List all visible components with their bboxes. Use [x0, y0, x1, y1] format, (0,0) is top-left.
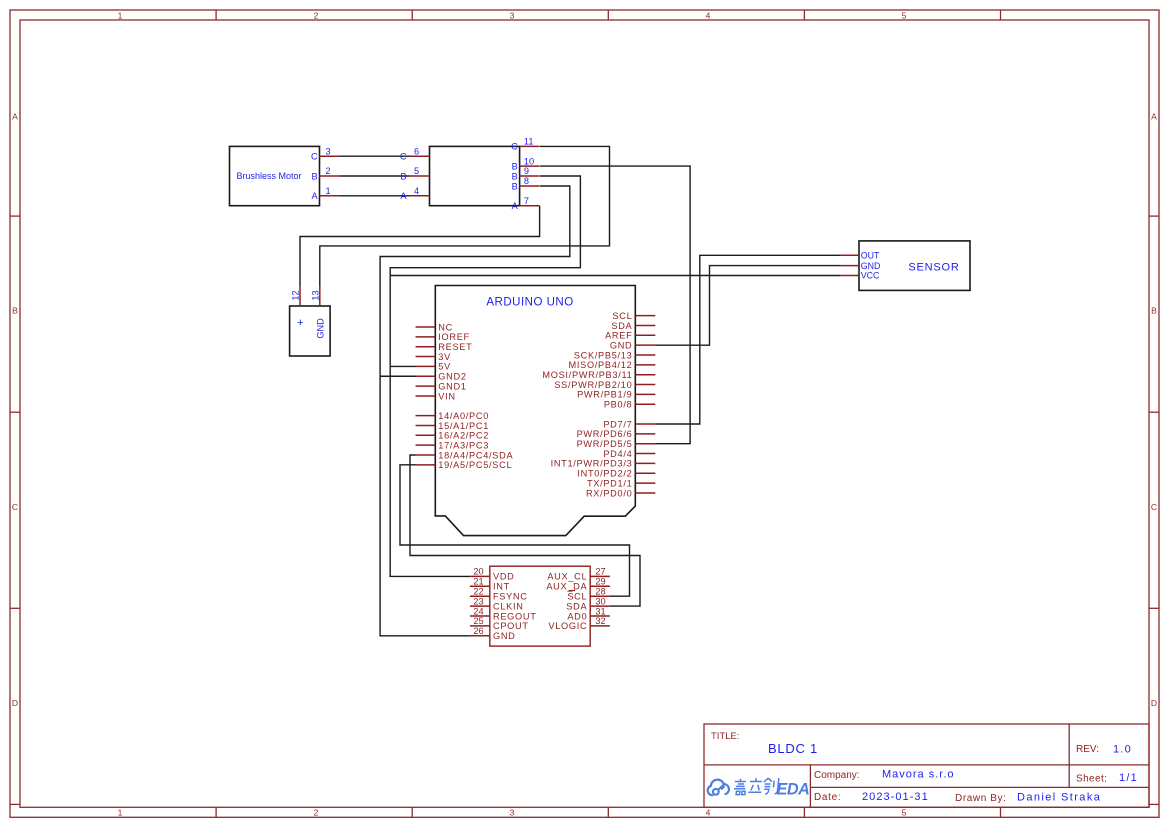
- arduino pin MISO/PB4/12: [569, 360, 656, 370]
- connector pin 5 (B) left: [400, 166, 429, 181]
- svg-text:INT: INT: [493, 582, 510, 592]
- arduino pin GND: [610, 340, 655, 350]
- arduino pin GND2: [416, 372, 467, 382]
- svg-text:C: C: [511, 142, 518, 152]
- svg-text:11: 11: [524, 137, 534, 147]
- arduino pin PWR/PD5/5: [577, 439, 656, 449]
- svg-text:5: 5: [414, 166, 419, 176]
- svg-text:18/A4/PC4/SDA: 18/A4/PC4/SDA: [438, 450, 513, 460]
- svg-text:D: D: [12, 698, 18, 708]
- arduino pin GND1: [416, 381, 467, 391]
- svg-text:14/A0/PC0: 14/A0/PC0: [438, 411, 489, 421]
- svg-text:A: A: [400, 191, 407, 201]
- svg-text:RESET: RESET: [438, 342, 472, 352]
- arduino pin 3V: [416, 352, 452, 362]
- svg-text:C: C: [311, 152, 318, 162]
- wire: arduino 19/A5/PC5/SCL to MPU pin 28 SCL: [400, 465, 630, 596]
- svg-text:27: 27: [595, 567, 605, 577]
- svg-text:GND: GND: [493, 631, 516, 641]
- svg-text:5V: 5V: [438, 362, 451, 372]
- MPU pin 24 (REGOUT): [470, 606, 537, 621]
- arduino pin 19/A5/PC5/SCL: [416, 460, 513, 470]
- svg-text:IOREF: IOREF: [438, 332, 470, 342]
- svg-text:25: 25: [473, 616, 483, 626]
- wire: connector pin 9 (B) to arduino 5V / sensor VCC / MPU VDD net: [390, 176, 580, 576]
- svg-text:Daniel Straka: Daniel Straka: [1017, 792, 1101, 804]
- wire: sensor GND to arduino GND: [655, 266, 839, 346]
- svg-text:SDA: SDA: [611, 321, 632, 331]
- svg-text:A: A: [311, 191, 318, 201]
- svg-text:Sheet:: Sheet:: [1076, 774, 1107, 785]
- svg-text:CLKIN: CLKIN: [493, 601, 524, 611]
- battery pin 13 (GND): [311, 287, 321, 306]
- arduino pin AREF: [605, 331, 655, 341]
- svg-text:29: 29: [595, 577, 605, 587]
- motor pin 3 (C): [311, 146, 340, 161]
- wire: 5V branch of VCC net: [390, 365, 415, 367]
- svg-text:26: 26: [473, 626, 483, 636]
- svg-text:GND: GND: [861, 261, 881, 271]
- svg-text:PWR/PD5/5: PWR/PD5/5: [577, 439, 633, 449]
- svg-text:Date:: Date:: [814, 792, 841, 803]
- svg-text:4: 4: [414, 186, 419, 196]
- svg-text:1.0: 1.0: [1113, 744, 1132, 756]
- sensor pin OUT: [840, 251, 880, 261]
- svg-text:PWR/PB1/9: PWR/PB1/9: [577, 390, 632, 400]
- EasyEDA (JLC) logo: [708, 778, 810, 798]
- arduino pin SS/PWR/PB2/10: [554, 380, 655, 390]
- svg-text:AUX_CL: AUX_CL: [547, 572, 587, 582]
- arduino pin 17/A3/PC3: [416, 440, 490, 450]
- arduino pin SCK/PB5/13: [574, 350, 655, 360]
- svg-text:MOSI/PWR/PB3/11: MOSI/PWR/PB3/11: [542, 370, 632, 380]
- motor pin 1 (A): [311, 186, 339, 201]
- svg-text:OUT: OUT: [861, 251, 880, 261]
- wire: connector pin 7 (A) to battery pin 12: [300, 206, 540, 287]
- svg-text:C: C: [400, 152, 407, 162]
- arduino pin PB0/8: [604, 400, 655, 410]
- connector pin 7 (A) right: [512, 196, 540, 211]
- svg-text:VDD: VDD: [493, 572, 515, 582]
- svg-text:24: 24: [473, 606, 483, 616]
- svg-text:21: 21: [473, 577, 483, 587]
- svg-text:17/A3/PC3: 17/A3/PC3: [438, 440, 489, 450]
- wire: connector pin 8 (B) to arduino GND2 / MPU GND net: [380, 186, 570, 636]
- svg-text:GND: GND: [610, 340, 633, 350]
- svg-text:7: 7: [524, 196, 529, 206]
- svg-text:20: 20: [473, 567, 483, 577]
- svg-text:22: 22: [473, 587, 483, 597]
- svg-text:REV:: REV:: [1076, 744, 1099, 755]
- connector pin 8 (B) right: [512, 176, 540, 191]
- MPU pin 30 (SDA): [566, 596, 610, 611]
- MPU pin 31 (AD0): [567, 606, 610, 621]
- svg-text:B: B: [311, 171, 317, 181]
- wire: connector pin 10 (B) to arduino PWR/PD5/5: [540, 166, 690, 444]
- svg-text:1: 1: [118, 10, 123, 20]
- svg-text:TITLE:: TITLE:: [711, 731, 740, 741]
- MPU pin 32 (VLOGIC): [548, 616, 610, 631]
- svg-text:SCL: SCL: [612, 311, 632, 321]
- arduino pin 14/A0/PC0: [416, 411, 490, 421]
- svg-text:23: 23: [473, 596, 483, 606]
- svg-text:Drawn By:: Drawn By:: [955, 793, 1007, 804]
- arduino pin MOSI/PWR/PB3/11: [542, 370, 655, 380]
- svg-text:SCL: SCL: [567, 592, 587, 602]
- svg-text:PD7/7: PD7/7: [603, 419, 632, 429]
- wire: sensor VCC to VCC net vertical: [390, 275, 839, 277]
- svg-text:2: 2: [314, 10, 319, 20]
- arduino pin 15/A1/PC1: [416, 421, 490, 431]
- svg-text:Mavora s.r.o: Mavora s.r.o: [882, 769, 955, 781]
- component U1 ARDUINO UNO: [435, 286, 635, 536]
- arduino pin IOREF: [416, 332, 470, 342]
- wire: motor pin 2 (B) to connector pin 5: [340, 175, 410, 177]
- svg-text:TX/PD1/1: TX/PD1/1: [587, 478, 632, 488]
- svg-text:D: D: [1151, 698, 1157, 708]
- arduino pin RX/PD0/0: [586, 488, 655, 498]
- wire: GND2 branch of ground net: [380, 375, 415, 377]
- svg-text:C: C: [12, 502, 18, 512]
- sensor pin GND: [840, 261, 881, 271]
- svg-text:5: 5: [902, 808, 907, 818]
- svg-text:SS/PWR/PB2/10: SS/PWR/PB2/10: [554, 380, 632, 390]
- svg-text:1/1: 1/1: [1119, 772, 1138, 784]
- wire: sensor OUT to arduino PD7/7: [655, 255, 839, 424]
- svg-text:13: 13: [311, 290, 321, 300]
- svg-text:B: B: [512, 181, 518, 191]
- arduino pin VIN: [416, 391, 456, 401]
- svg-text:3: 3: [510, 808, 515, 818]
- svg-text:SDA: SDA: [566, 601, 587, 611]
- svg-text:+: +: [297, 317, 303, 329]
- arduino pin PWR/PB1/9: [577, 390, 655, 400]
- svg-text:REGOUT: REGOUT: [493, 611, 537, 621]
- connector pin 11 (C) right: [511, 137, 539, 152]
- svg-text:PB0/8: PB0/8: [604, 400, 633, 410]
- connector pin 9 (B) right: [512, 166, 540, 181]
- svg-text:VCC: VCC: [861, 271, 880, 281]
- svg-text:4: 4: [706, 10, 711, 20]
- svg-text:15/A1/PC1: 15/A1/PC1: [438, 421, 489, 431]
- svg-text:ARDUINO UNO: ARDUINO UNO: [486, 297, 573, 309]
- svg-text:AREF: AREF: [605, 331, 632, 341]
- svg-text:1: 1: [326, 186, 331, 196]
- arduino pin 16/A2/PC2: [416, 431, 490, 441]
- svg-text:AD0: AD0: [567, 611, 587, 621]
- motor pin 2 (B): [311, 166, 339, 181]
- connector pin 10 (B) right: [512, 156, 540, 171]
- component M1 Brushless Motor: [230, 146, 320, 205]
- title block: [704, 724, 1149, 807]
- svg-text:A: A: [512, 201, 519, 211]
- svg-text:5: 5: [902, 10, 907, 20]
- svg-text:AUX_DA: AUX_DA: [546, 582, 587, 592]
- arduino pin INT1/PWR/PD3/3: [551, 459, 656, 469]
- connector pin 4 (A) left: [400, 186, 429, 201]
- svg-text:19/A5/PC5/SCL: 19/A5/PC5/SCL: [438, 460, 512, 470]
- MPU pin 23 (CLKIN): [470, 596, 524, 611]
- svg-text:6: 6: [414, 146, 419, 156]
- svg-text:VLOGIC: VLOGIC: [548, 621, 587, 631]
- battery connector (+ / GND): [290, 306, 331, 356]
- arduino pin RESET: [416, 342, 473, 352]
- component U3 MPU-60x0 IMU: [490, 566, 590, 646]
- wire: motor pin 1 (A) to connector pin 4: [340, 195, 410, 197]
- MPU pin 27 (AUX_CL): [547, 567, 610, 582]
- svg-text:31: 31: [595, 606, 605, 616]
- svg-text:Company:: Company:: [814, 770, 860, 781]
- svg-text:VIN: VIN: [438, 391, 455, 401]
- arduino pin INT0/PD2/2: [577, 469, 655, 479]
- MPU pin 25 (CPOUT): [470, 616, 529, 631]
- component U4 SENSOR: [859, 241, 970, 291]
- MPU pin 20 (VDD): [470, 567, 515, 582]
- svg-text:30: 30: [595, 596, 605, 606]
- svg-text:9: 9: [524, 166, 529, 176]
- connector U2 (ESC block): [430, 146, 520, 205]
- arduino pin TX/PD1/1: [587, 478, 655, 488]
- wire: arduino 18/A4/PC4/SDA to MPU pin 30 SDA: [410, 455, 640, 606]
- svg-text:32: 32: [595, 616, 605, 626]
- svg-text:C: C: [1151, 502, 1157, 512]
- svg-text:A: A: [12, 112, 18, 122]
- svg-text:3: 3: [326, 146, 331, 156]
- svg-text:GND1: GND1: [438, 381, 466, 391]
- svg-text:2023-01-31: 2023-01-31: [862, 791, 929, 803]
- MPU pin 21 (INT): [470, 577, 510, 592]
- svg-text:2: 2: [314, 808, 319, 818]
- svg-text:10: 10: [524, 156, 534, 166]
- arduino pin PD7/7: [603, 419, 655, 429]
- svg-text:SENSOR: SENSOR: [908, 262, 959, 274]
- svg-text:4: 4: [706, 808, 711, 818]
- svg-text:RX/PD0/0: RX/PD0/0: [586, 488, 632, 498]
- svg-text:PWR/PD6/6: PWR/PD6/6: [577, 429, 633, 439]
- MPU pin 26 (GND): [470, 626, 516, 641]
- arduino pin SDA: [611, 321, 655, 331]
- svg-text:1: 1: [118, 808, 123, 818]
- svg-text:MISO/PB4/12: MISO/PB4/12: [569, 360, 633, 370]
- connector pin 6 (C) left: [400, 146, 430, 161]
- wire: connector pin 11 (C) to battery pin 13: [320, 146, 610, 286]
- MPU pin 22 (FSYNC): [470, 587, 528, 602]
- svg-text:B: B: [12, 306, 18, 316]
- arduino pin NC: [416, 322, 453, 332]
- svg-text:3: 3: [510, 10, 515, 20]
- svg-text:SCK/PB5/13: SCK/PB5/13: [574, 350, 633, 360]
- sensor pin VCC: [840, 271, 881, 281]
- svg-text:16/A2/PC2: 16/A2/PC2: [438, 431, 489, 441]
- svg-text:GND: GND: [315, 318, 325, 339]
- svg-text:INT0/PD2/2: INT0/PD2/2: [577, 469, 632, 479]
- arduino pin 18/A4/PC4/SDA: [416, 450, 514, 460]
- svg-text:28: 28: [595, 587, 605, 597]
- svg-text:BLDC 1: BLDC 1: [768, 741, 818, 756]
- svg-text:12: 12: [291, 290, 301, 300]
- svg-text:2: 2: [326, 166, 331, 176]
- svg-text:B: B: [1151, 306, 1157, 316]
- svg-text:B: B: [512, 161, 518, 171]
- MPU pin 28 (SCL): [567, 587, 610, 602]
- svg-text:A: A: [1151, 112, 1157, 122]
- svg-text:FSYNC: FSYNC: [493, 592, 528, 602]
- MPU pin 29 (AUX_DA): [546, 577, 610, 592]
- arduino pin PWR/PD6/6: [577, 429, 656, 439]
- svg-text:NC: NC: [438, 322, 453, 332]
- svg-text:8: 8: [524, 176, 529, 186]
- svg-text:EDA: EDA: [777, 780, 810, 798]
- svg-text:B: B: [400, 171, 406, 181]
- arduino pin PD4/4: [603, 449, 655, 459]
- svg-text:INT1/PWR/PD3/3: INT1/PWR/PD3/3: [551, 459, 633, 469]
- arduino pin 5V: [416, 362, 452, 372]
- svg-text:3V: 3V: [438, 352, 451, 362]
- arduino pin SCL: [612, 311, 655, 321]
- svg-text:GND2: GND2: [438, 372, 466, 382]
- svg-text:B: B: [512, 171, 518, 181]
- svg-text:PD4/4: PD4/4: [603, 449, 632, 459]
- svg-text:Brushless Motor: Brushless Motor: [237, 171, 302, 181]
- battery pin 12 (+): [291, 287, 301, 306]
- svg-text:CPOUT: CPOUT: [493, 621, 529, 631]
- wire: motor pin 3 (C) to connector pin 6: [340, 155, 410, 157]
